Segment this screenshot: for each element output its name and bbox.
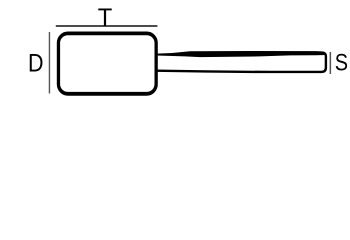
svg-text:T: T — [98, 4, 113, 32]
dimension line T — [56, 25, 158, 27]
svg-text:S: S — [335, 49, 348, 76]
handle right end cap and bottom edge — [157, 53, 326, 72]
dimension line D — [48, 32, 50, 94]
scraper head (non-uniform stroke via y-scale) — [58, 33, 156, 93]
dimension tick S — [329, 52, 331, 74]
handle thick top bar — [157, 51, 325, 57]
svg-text:D: D — [28, 49, 44, 77]
